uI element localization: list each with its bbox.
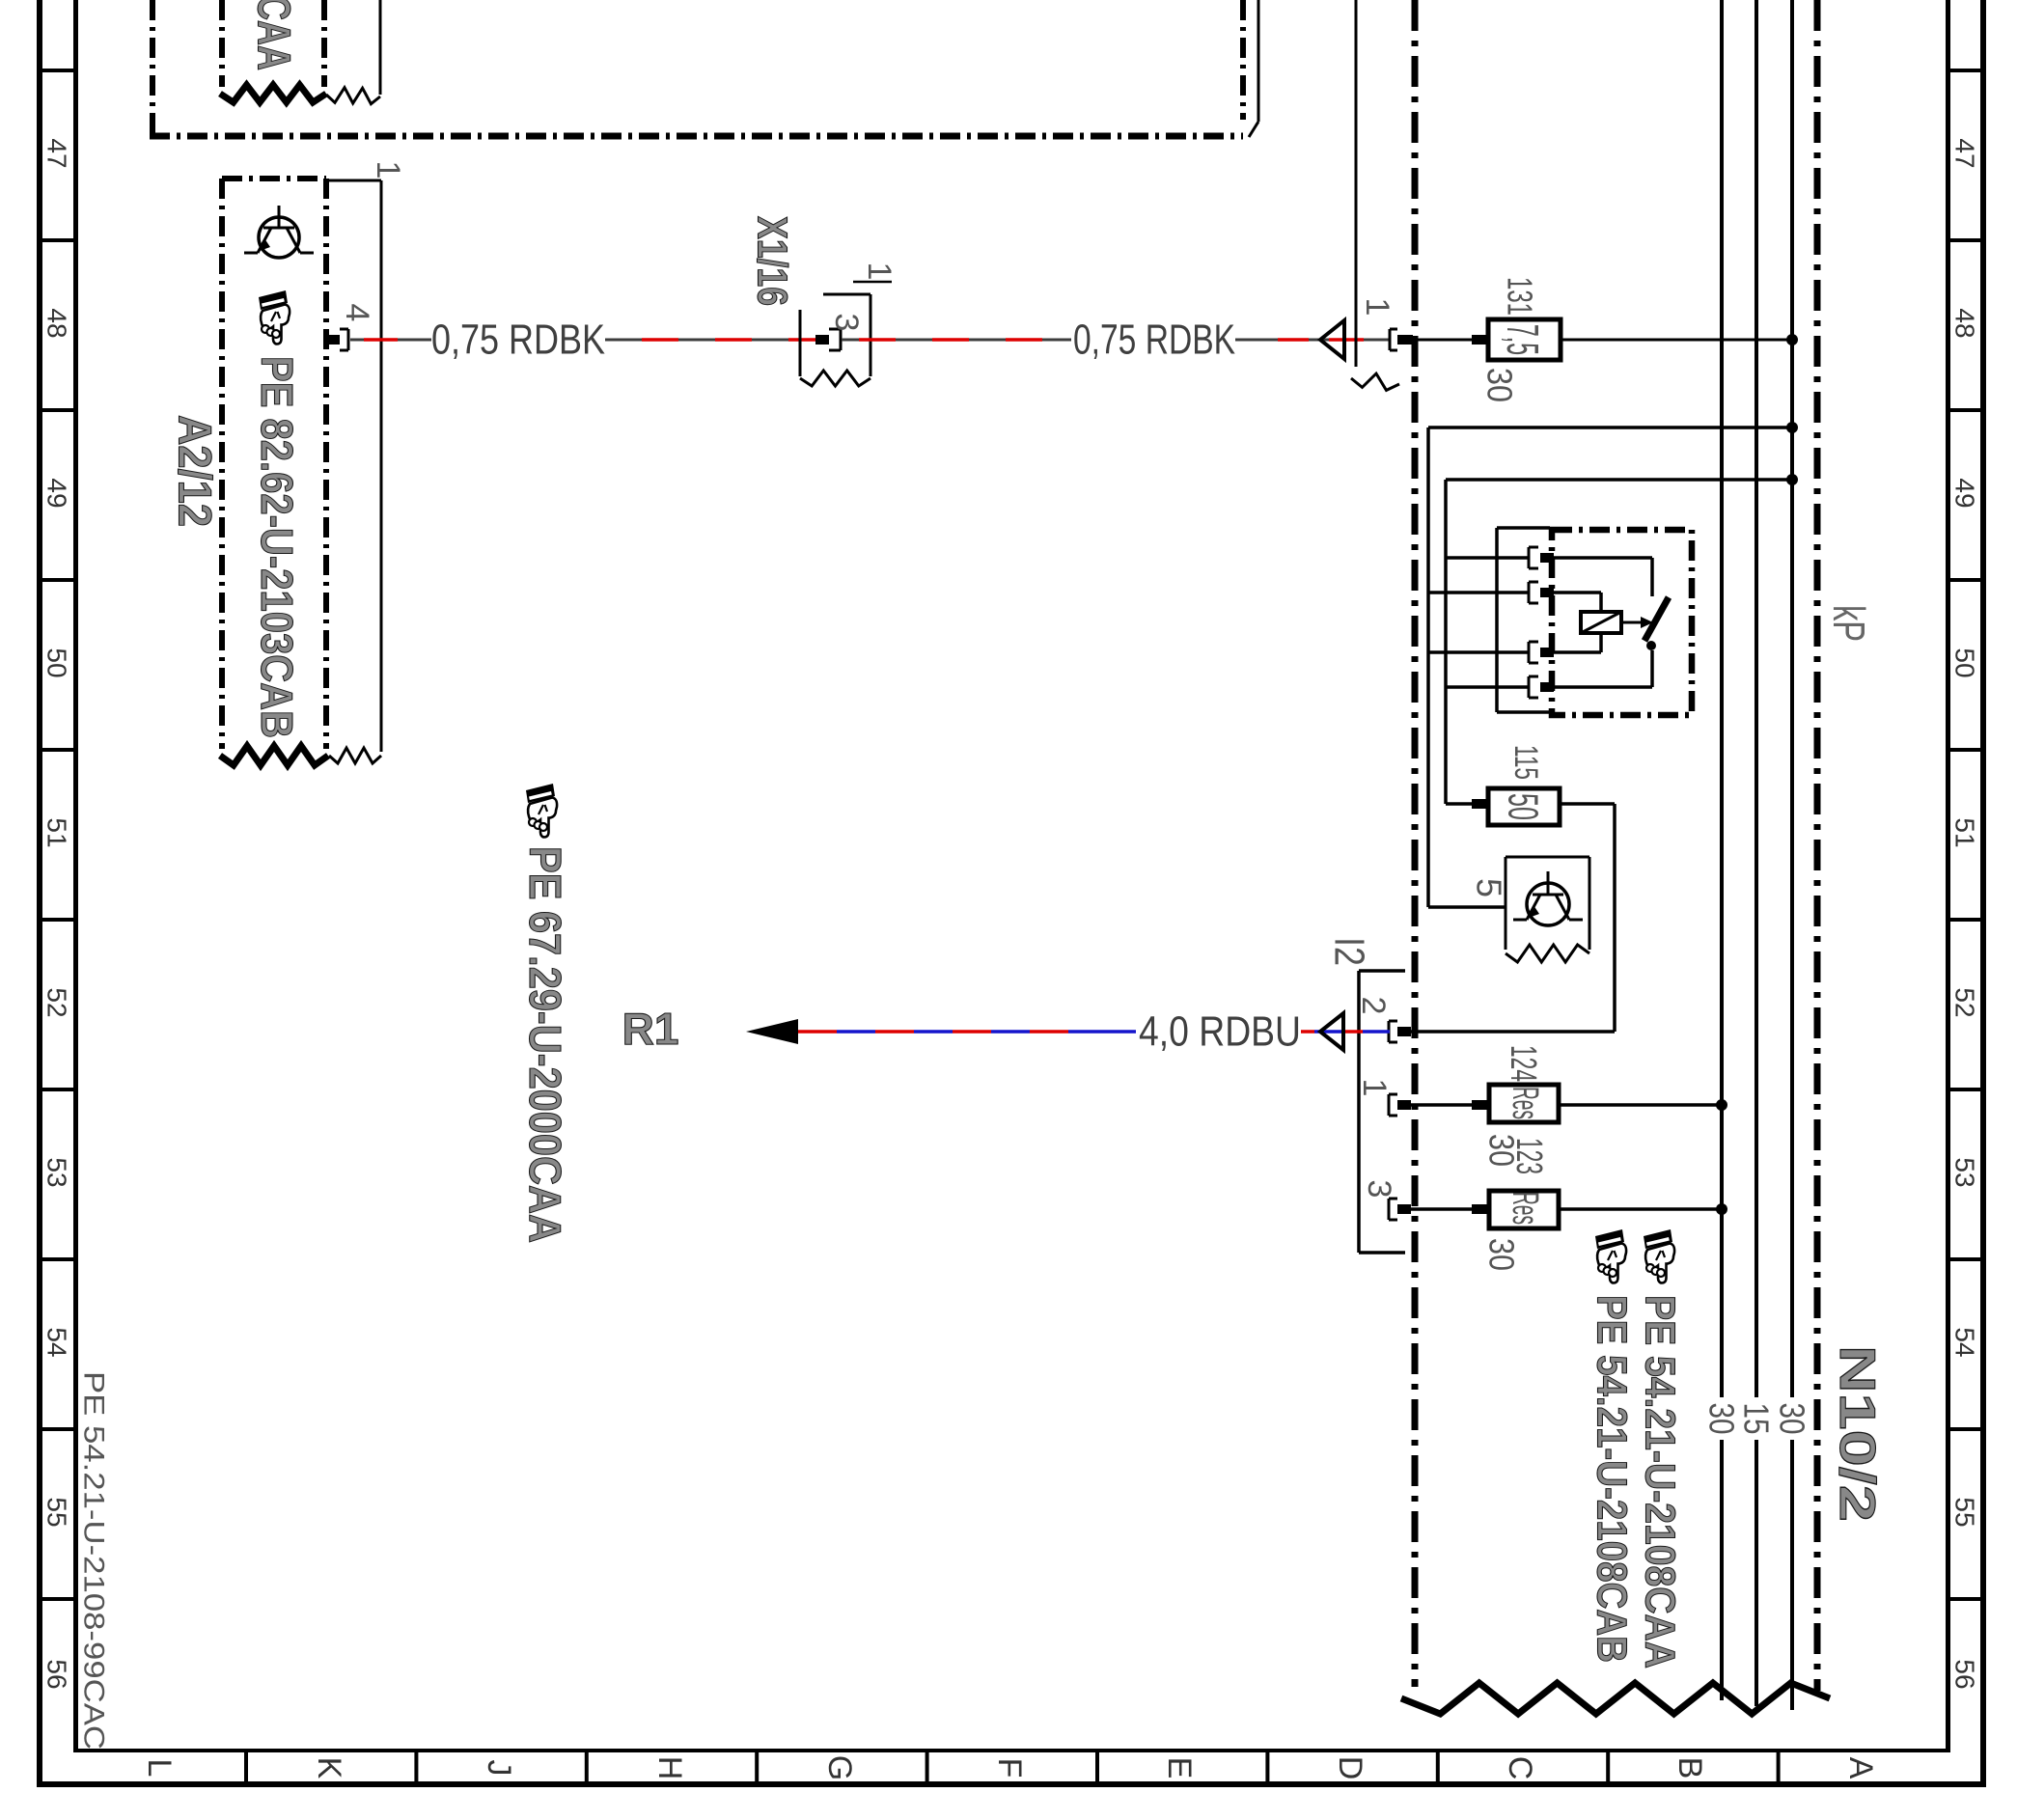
junction dot (bus 30 row 49a) xyxy=(1786,422,1798,433)
component N10/2 left boundary xyxy=(1412,0,1419,1687)
svg-text:30: 30 xyxy=(1480,368,1520,402)
svg-text:H: H xyxy=(651,1756,688,1780)
svg-text:E: E xyxy=(1161,1757,1198,1779)
svg-text:50: 50 xyxy=(42,648,72,677)
label CAA xyxy=(248,0,299,70)
svg-text:53: 53 xyxy=(42,1157,72,1187)
svg-text:PE 54.21-U-2108CAB: PE 54.21-U-2108CAB xyxy=(1589,1295,1636,1663)
torn bottom edge of N10/2 xyxy=(1401,1683,1830,1714)
I2 pin 3 xyxy=(1361,1180,1411,1220)
svg-text:48: 48 xyxy=(42,308,72,338)
svg-text:55: 55 xyxy=(1950,1497,1980,1527)
wire fuse 131 to bus 30 xyxy=(1559,339,1792,342)
svg-text:I2: I2 xyxy=(1326,937,1373,966)
svg-text:52: 52 xyxy=(1950,987,1980,1017)
svg-text:53: 53 xyxy=(1950,1157,1980,1187)
svg-text:N10/2: N10/2 xyxy=(1829,1345,1885,1522)
wire fuse 115 to I2 pin 2 xyxy=(1411,804,1615,1032)
svg-text:52: 52 xyxy=(42,987,72,1017)
bus label 30 (left) xyxy=(1702,1403,1742,1435)
component A2/12 box xyxy=(220,179,328,765)
component box (top, partial) outline xyxy=(150,0,1243,136)
svg-text:PE 54.21-U-2108-99CAC: PE 54.21-U-2108-99CAC xyxy=(78,1371,110,1750)
svg-text:CAA: CAA xyxy=(248,0,299,70)
wire 0,75 RDBK segment a xyxy=(350,339,431,342)
svg-text:K: K xyxy=(311,1757,347,1779)
hand icon (PE 67.29) xyxy=(526,784,557,838)
relay K box xyxy=(1552,530,1692,715)
pin 1 label (A2/12 top) xyxy=(370,161,406,179)
bus line 15 xyxy=(1755,0,1758,1706)
junction dot (bus 30 row 53b) xyxy=(1716,1203,1727,1215)
arrow to R1 (filled) xyxy=(746,1019,798,1044)
label R1 xyxy=(622,1004,679,1054)
svg-text:49: 49 xyxy=(42,478,72,508)
label 5 xyxy=(1470,878,1509,897)
arrow (open, wire continues) xyxy=(1320,320,1344,359)
connector I2 bracket xyxy=(1359,971,1405,1253)
wire label 0,75 RDBK (left) xyxy=(431,317,605,364)
component N10/2 right boundary xyxy=(1814,0,1821,1691)
wire bus30 to relay pin2 net xyxy=(1428,427,1792,907)
resistor 123 labels xyxy=(1482,1138,1550,1271)
svg-text:R1: R1 xyxy=(622,1004,679,1054)
hand icon (PE 54.21 CAA) xyxy=(1644,1229,1674,1283)
resistor 124 labels xyxy=(1482,1045,1544,1167)
wire I2 pin1 to Res 124 xyxy=(1411,1103,1472,1107)
label A2/12 xyxy=(169,415,220,527)
pin 3 of X1/16 xyxy=(815,314,865,350)
svg-text:47: 47 xyxy=(1950,138,1980,168)
wire pin1 to fuse 131 xyxy=(1413,339,1472,342)
svg-text:50: 50 xyxy=(1950,648,1980,677)
wire 0,75 RDBK segment b xyxy=(605,339,815,342)
bus label 30 (right) xyxy=(1773,1403,1812,1435)
svg-text:51: 51 xyxy=(42,817,72,847)
svg-text:49: 49 xyxy=(1950,478,1980,508)
svg-text:0,75 RDBK: 0,75 RDBK xyxy=(1073,317,1235,364)
svg-text:131: 131 xyxy=(1501,277,1540,316)
svg-text:47: 47 xyxy=(42,138,72,168)
torn rectangle right of CAA xyxy=(326,0,380,104)
svg-text:30: 30 xyxy=(1773,1403,1812,1435)
svg-text:115: 115 xyxy=(1507,745,1544,780)
svg-text:J: J xyxy=(481,1760,517,1777)
svg-text:51: 51 xyxy=(1950,817,1980,847)
transistor symbol U (A2/12) xyxy=(244,206,314,258)
pin 4 of A2/12 xyxy=(326,304,375,350)
arrow (open) at I2 pin 2 xyxy=(1320,1013,1343,1050)
component 5 box (torn) xyxy=(1506,857,1589,962)
label PE 82.62-U-2103CAB xyxy=(252,356,302,738)
svg-text:15: 15 xyxy=(1737,1403,1777,1435)
svg-text:B: B xyxy=(1672,1757,1708,1779)
wire 4,0 RDBU segment a xyxy=(798,1030,1136,1034)
junction dot (bus 30 row 48) xyxy=(1786,334,1798,345)
border column letters L-A xyxy=(141,1755,1879,1780)
fuse 115 label xyxy=(1507,745,1544,780)
svg-text:3: 3 xyxy=(828,314,865,332)
svg-text:1: 1 xyxy=(1356,1079,1393,1097)
junction dot (bus 30 row 49b) xyxy=(1786,474,1798,485)
label PE 67.29-U-2000CAA xyxy=(520,846,570,1243)
wire bus30 to relay pin1 net xyxy=(1446,480,1792,804)
svg-text:L: L xyxy=(141,1759,178,1778)
svg-text:56: 56 xyxy=(1950,1659,1980,1689)
svg-text:A2/12: A2/12 xyxy=(169,415,220,527)
svg-text:PE 67.29-U-2000CAA: PE 67.29-U-2000CAA xyxy=(520,846,570,1243)
svg-text:kP: kP xyxy=(1824,605,1874,642)
svg-text:30: 30 xyxy=(1702,1403,1742,1435)
svg-text:C: C xyxy=(1502,1756,1538,1780)
relay connector bracket xyxy=(1497,528,1550,712)
I2 pin 2 xyxy=(1355,997,1411,1042)
torn boundary line (top right) xyxy=(1351,0,1399,390)
svg-text:4: 4 xyxy=(339,304,375,322)
hand icon (PE 54.21 CAB) xyxy=(1595,1229,1626,1283)
svg-text:55: 55 xyxy=(42,1497,72,1527)
wire to component 5 xyxy=(1428,905,1506,909)
label X1/16 xyxy=(749,216,796,306)
relay pin 2 xyxy=(1529,582,1554,603)
bus line 30 (left) xyxy=(1720,0,1724,1700)
svg-text:4,0 RDBU: 4,0 RDBU xyxy=(1139,1008,1301,1056)
svg-text:2: 2 xyxy=(1355,997,1392,1015)
I2 pin 1 xyxy=(1356,1079,1411,1116)
fuse 115 (50) xyxy=(1472,788,1560,825)
svg-text:A: A xyxy=(1842,1757,1879,1779)
label I2 xyxy=(1326,937,1373,966)
component CAA box (torn) xyxy=(220,0,326,102)
relay actuating arrow xyxy=(1621,617,1653,628)
svg-text:3: 3 xyxy=(1361,1180,1397,1199)
resistor 124 (Res) xyxy=(1472,1085,1559,1122)
connector X1/16 box xyxy=(800,294,870,386)
relay coil xyxy=(1554,593,1621,652)
svg-text:Res: Res xyxy=(1505,1192,1545,1225)
torn rectangle edge near top box corner xyxy=(1249,0,1258,137)
svg-text:56: 56 xyxy=(42,1659,72,1689)
svg-text:1: 1 xyxy=(861,262,898,281)
svg-text:1: 1 xyxy=(1359,298,1395,317)
svg-text:0,75 RDBK: 0,75 RDBK xyxy=(431,317,605,364)
svg-text:PE 82.62-U-2103CAB: PE 82.62-U-2103CAB xyxy=(252,356,302,738)
svg-text:D: D xyxy=(1332,1756,1368,1780)
relay pin 4 xyxy=(1529,676,1554,698)
svg-text:1: 1 xyxy=(370,161,406,179)
fuse 131 labels xyxy=(1480,277,1540,402)
label PE 54.21-U-2108CAB xyxy=(1589,1295,1636,1663)
svg-text:50: 50 xyxy=(1500,793,1547,820)
relay pin 1 xyxy=(1529,547,1554,568)
wire 0,75 RDBK segment c xyxy=(842,339,1071,342)
wire I2 pin3 to Res 123 xyxy=(1411,1207,1472,1211)
sheet reference PE 54.21-U-2108-99CAC xyxy=(78,1371,110,1750)
junction dot (bus 30 row 53a) xyxy=(1716,1099,1727,1111)
hand icon (A2/12) xyxy=(259,290,290,345)
svg-text:G: G xyxy=(821,1755,858,1780)
resistor 123 (Res) xyxy=(1472,1191,1559,1228)
wire label 0,75 RDBK (right) xyxy=(1073,317,1235,364)
pin 1 at N10/2 boundary xyxy=(1359,298,1413,350)
svg-text:5: 5 xyxy=(1470,878,1509,897)
svg-text:54: 54 xyxy=(1950,1327,1980,1357)
fuse 131 (7,5A) xyxy=(1472,319,1561,360)
svg-text:123: 123 xyxy=(1508,1138,1549,1174)
svg-text:PE 54.21-U-2108CAA: PE 54.21-U-2108CAA xyxy=(1637,1295,1684,1668)
label N10/2 xyxy=(1829,1345,1885,1522)
wire label 4,0 RDBU xyxy=(1139,1008,1301,1056)
relay pin 3 xyxy=(1529,642,1554,663)
svg-text:F: F xyxy=(991,1758,1028,1779)
label PE 54.21-U-2108CAA xyxy=(1637,1295,1684,1668)
pin 1 mark of X1/16 xyxy=(853,262,898,282)
svg-text:30: 30 xyxy=(1482,1238,1522,1271)
relay switch xyxy=(1554,558,1669,687)
transistor symbol (component 5) xyxy=(1513,871,1583,925)
wire Res 123 to bus 30 xyxy=(1559,1207,1722,1211)
wire 0,75 RDBK segment d xyxy=(1235,339,1390,342)
bus line 30 (right) xyxy=(1790,0,1794,1710)
wire 4,0 RDBU segment b xyxy=(1301,1030,1390,1034)
svg-text:X1/16: X1/16 xyxy=(749,216,796,306)
svg-text:7,5: 7,5 xyxy=(1498,324,1548,355)
svg-text:124: 124 xyxy=(1503,1045,1543,1082)
connector rectangle at A2/12 (torn) xyxy=(326,180,381,763)
svg-text:54: 54 xyxy=(42,1327,72,1357)
bus label 15 xyxy=(1737,1403,1777,1435)
label kP xyxy=(1824,605,1874,642)
svg-text:48: 48 xyxy=(1950,308,1980,338)
svg-text:Res: Res xyxy=(1505,1087,1545,1119)
wire Res 124 to bus 30 xyxy=(1559,1103,1722,1107)
